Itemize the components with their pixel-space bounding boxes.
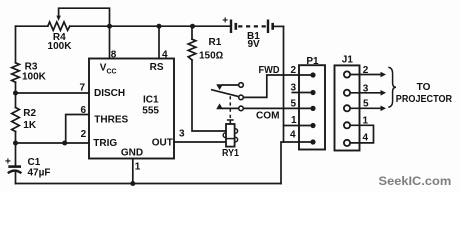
wire pin8: [109, 26, 111, 58]
resistor R4: [48, 22, 70, 30]
svg-text:R1: R1: [209, 37, 222, 48]
resistor R3: [12, 63, 20, 82]
svg-text:SeekIC.com: SeekIC.com: [379, 174, 452, 188]
svg-text:P1: P1: [306, 56, 319, 67]
svg-text:100K: 100K: [48, 41, 73, 52]
svg-text:3: 3: [290, 82, 296, 93]
wire FWD to P1 pin2: [243, 75, 313, 97]
wire R4 wiper: [59, 8, 110, 26]
relay contact circles: [239, 83, 244, 111]
svg-text:4: 4: [363, 133, 369, 144]
wire J1 pin2 out: [350, 74, 381, 76]
svg-text:R2: R2: [23, 108, 36, 119]
svg-text:9V: 9V: [248, 39, 261, 50]
svg-text:C1: C1: [28, 157, 41, 168]
svg-text:2: 2: [290, 65, 296, 76]
wire relay NC contact: [223, 84, 239, 86]
connector J1 box: [335, 65, 360, 150]
relay coil RY1: [223, 96, 237, 146]
resistor R2: [12, 108, 20, 132]
svg-text:TRIG: TRIG: [93, 138, 117, 149]
wire bottom ground rail: [16, 183, 282, 185]
wire relay armature: [212, 90, 239, 97]
svg-text:COM: COM: [256, 110, 280, 121]
wire relay NO contact: [223, 107, 239, 109]
svg-text:6: 6: [81, 105, 87, 116]
svg-text:2: 2: [81, 129, 87, 140]
J1 arrowheads: [381, 72, 387, 111]
wire THRES pin6: [66, 115, 89, 144]
wire top rail middle: [70, 25, 230, 27]
svg-text:+: +: [222, 16, 228, 27]
svg-text:RS: RS: [150, 62, 164, 73]
IC1 555 box: [89, 59, 174, 159]
wire pin4: [158, 26, 160, 58]
svg-text:150Ω: 150Ω: [199, 51, 224, 62]
svg-text:4: 4: [290, 130, 296, 141]
svg-text:7: 7: [80, 82, 86, 93]
wire top rail left: [16, 25, 48, 27]
svg-text:100K: 100K: [22, 72, 47, 83]
svg-text:THRES: THRES: [94, 114, 128, 125]
svg-text:RY1: RY1: [222, 148, 239, 159]
wire J1 pin5 out: [350, 107, 381, 109]
svg-text:3: 3: [179, 129, 185, 140]
wire battery to down elbow: [274, 25, 284, 27]
svg-text:FWD: FWD: [259, 65, 280, 76]
svg-text:PROJECTOR: PROJECTOR: [396, 94, 453, 105]
svg-text:4: 4: [162, 49, 168, 60]
battery B1: [230, 20, 274, 34]
wire DISCH pin7: [16, 92, 90, 94]
svg-text:555: 555: [142, 106, 159, 117]
svg-text:5: 5: [290, 98, 296, 109]
svg-text:+: +: [5, 157, 11, 168]
svg-text:1: 1: [291, 115, 297, 126]
svg-text:1: 1: [135, 162, 141, 173]
svg-text:5: 5: [363, 99, 369, 110]
wire OUT pin3: [174, 141, 226, 143]
wire battery negative vertical: [283, 26, 285, 142]
wire left rail: [15, 26, 17, 183]
wire R1 branch: [192, 26, 226, 131]
svg-text:1K: 1K: [23, 120, 37, 131]
wire P1 pin1: [284, 125, 314, 127]
svg-text:J1: J1: [342, 55, 354, 66]
svg-text:GND: GND: [121, 147, 143, 158]
J1 pin circles: [344, 71, 350, 146]
svg-text:OUT: OUT: [152, 138, 173, 149]
svg-text:IC1: IC1: [143, 95, 159, 106]
wire P1 pin4 to ground: [281, 142, 313, 184]
wire GND pin1: [132, 159, 134, 184]
relay contact arrows: [216, 84, 223, 109]
svg-text:TO: TO: [417, 82, 431, 93]
svg-text:8: 8: [111, 49, 117, 60]
connector P1 box: [299, 65, 325, 149]
resistor R1: [188, 39, 196, 60]
wire J1 pins 1-4 jumper: [350, 125, 373, 143]
svg-text:1: 1: [363, 116, 369, 127]
svg-text:DISCH: DISCH: [94, 88, 125, 99]
svg-text:3: 3: [363, 83, 369, 94]
svg-text:2: 2: [363, 65, 369, 76]
capacitor C1: [8, 167, 22, 174]
wire P1 pin3 stub: [292, 92, 313, 94]
svg-text:CC: CC: [107, 68, 117, 75]
wire TRIG pin2: [16, 142, 90, 144]
P1 pin dots: [310, 72, 315, 144]
wire J1 pin3 out: [350, 92, 381, 94]
wire COM to P1 pin5: [243, 107, 313, 109]
brace to projector: [388, 67, 396, 107]
R4 wiper arrowhead: [56, 16, 60, 21]
svg-text:47µF: 47µF: [28, 168, 51, 179]
